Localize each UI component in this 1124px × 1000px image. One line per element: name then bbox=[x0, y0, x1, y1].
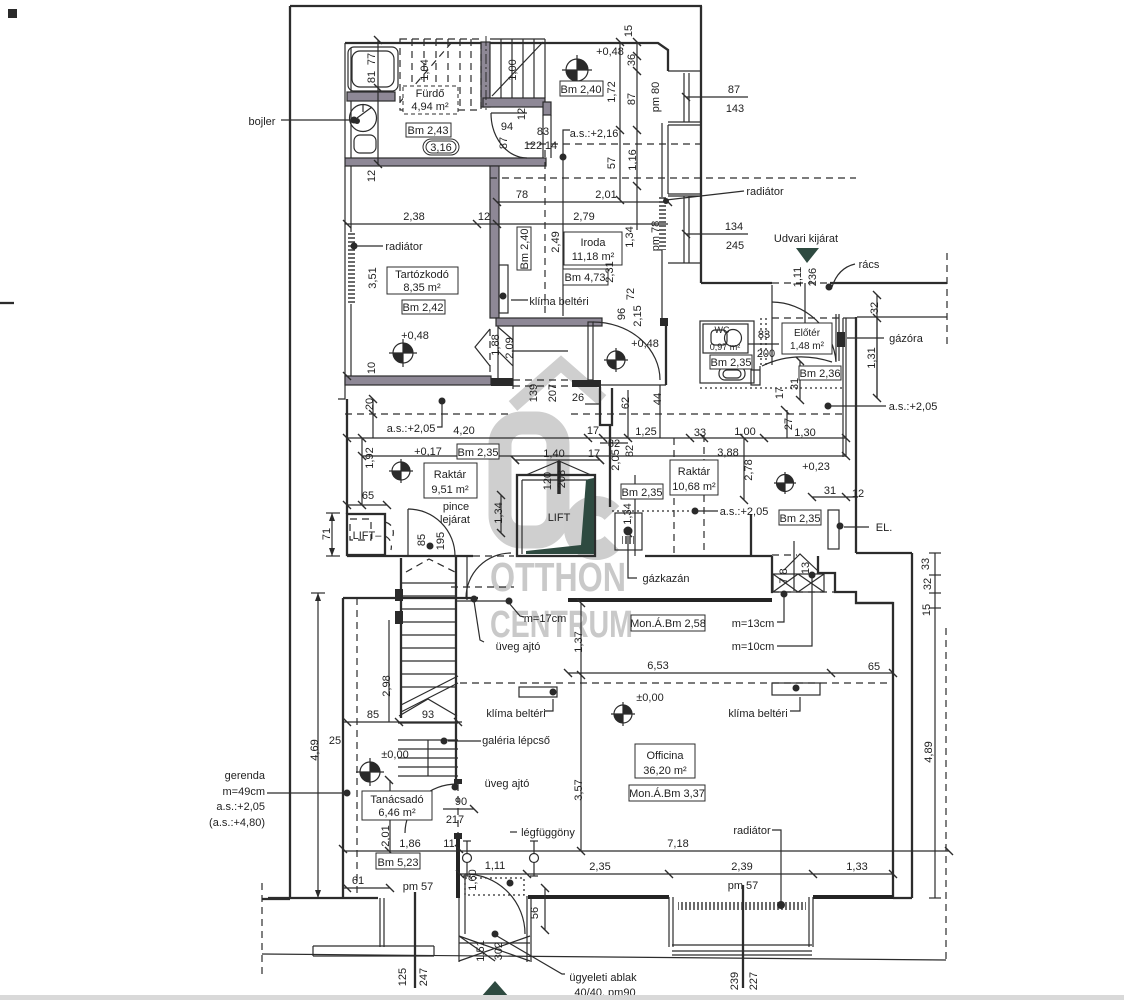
leader radiator officina bbox=[772, 830, 781, 903]
udvari kijarat arrow bbox=[796, 248, 819, 263]
svg-text:143: 143 bbox=[726, 103, 744, 115]
svg-text:1,51: 1,51 bbox=[475, 940, 487, 961]
Iroda south wall bbox=[496, 318, 602, 326]
svg-text:+0,17: +0,17 bbox=[414, 446, 442, 458]
tanacsado west wall bbox=[342, 598, 344, 898]
svg-text:Bm 2,35: Bm 2,35 bbox=[458, 447, 499, 459]
dim vline x637 bbox=[636, 42, 638, 230]
leader gerenda bbox=[267, 792, 344, 794]
leader pm57 right bbox=[742, 885, 744, 988]
svg-text:4,20: 4,20 bbox=[453, 425, 474, 437]
dashed vline x704 bbox=[703, 435, 705, 551]
ticks bbox=[339, 36, 953, 934]
label Bm 2,43 bbox=[406, 123, 451, 137]
pier cap 2 bbox=[454, 833, 462, 839]
svg-text:195: 195 bbox=[435, 532, 447, 550]
svg-text:10: 10 bbox=[366, 362, 378, 374]
corridor line y556 bbox=[347, 555, 473, 557]
site boundary east bbox=[700, 6, 702, 283]
corridor wall x610 lower bbox=[609, 425, 611, 507]
leader ugyeleti bbox=[497, 936, 565, 974]
svg-text:1,30: 1,30 bbox=[794, 427, 815, 439]
raktar1068 south wall bbox=[645, 555, 772, 557]
svg-text:83: 83 bbox=[758, 329, 770, 341]
officina shopwindow right pier bbox=[809, 897, 813, 947]
bojler dot bbox=[351, 117, 358, 124]
svg-text:94: 94 bbox=[501, 121, 513, 133]
svg-text:Bm 2,40: Bm 2,40 bbox=[519, 229, 531, 270]
svg-text:7 8: 7 8 bbox=[778, 568, 790, 583]
leader line down bbox=[562, 160, 564, 316]
svg-text:bojler: bojler bbox=[249, 116, 276, 128]
svg-text:200: 200 bbox=[757, 348, 775, 360]
dim vline x501 134 bbox=[500, 495, 502, 533]
svg-text:2,09: 2,09 bbox=[504, 337, 516, 358]
svg-text:2,15: 2,15 bbox=[632, 305, 644, 326]
svg-text:6,53: 6,53 bbox=[647, 660, 668, 672]
svg-text:1,00: 1,00 bbox=[507, 59, 519, 80]
entrance door arc bbox=[465, 874, 525, 934]
steps upper wall right bbox=[818, 556, 893, 603]
legfuggony device left bbox=[463, 841, 472, 876]
east wall outer x856 bbox=[855, 317, 857, 553]
STAIRS bbox=[395, 36, 824, 779]
svg-text:20: 20 bbox=[364, 398, 376, 410]
Tartozkodo west radiator hatch bbox=[348, 232, 355, 304]
radiator top dot bbox=[663, 198, 669, 204]
svg-text:15: 15 bbox=[921, 604, 933, 616]
leader as205 left bbox=[437, 404, 442, 427]
dim vline x378 bath bbox=[377, 40, 379, 165]
EL panel bbox=[828, 510, 839, 549]
DIMS bbox=[267, 36, 953, 988]
dim 71 arrows bbox=[326, 513, 340, 556]
pier cap 1 bbox=[454, 779, 462, 784]
gazkazan hatch bbox=[622, 536, 634, 544]
leader m10 bbox=[777, 578, 812, 646]
east window 2 glazing bbox=[668, 196, 701, 263]
sw window band bbox=[313, 946, 434, 956]
logo roof chevron bbox=[513, 364, 602, 406]
tanacsado south wall bbox=[268, 897, 378, 899]
main stair top chevron dashed bbox=[406, 559, 455, 572]
svg-text:2,78: 2,78 bbox=[743, 459, 755, 480]
wc bowl bbox=[725, 330, 742, 347]
svg-text:134: 134 bbox=[725, 221, 743, 233]
svg-text:9,51 m²: 9,51 m² bbox=[431, 484, 469, 496]
svg-text:üveg ajtó: üveg ajtó bbox=[496, 641, 541, 653]
label Előtér bbox=[782, 323, 832, 354]
svg-text:+0,48: +0,48 bbox=[596, 46, 624, 58]
svg-text:±0,00: ±0,00 bbox=[636, 692, 663, 704]
svg-text:klíma beltéri: klíma beltéri bbox=[529, 296, 588, 308]
svg-text:33: 33 bbox=[694, 427, 706, 439]
svg-text:Bm 4,73: Bm 4,73 bbox=[565, 272, 606, 284]
svg-text:11: 11 bbox=[443, 838, 454, 850]
label Mon.Á.Bm 2,58 bbox=[630, 615, 706, 631]
svg-text:12: 12 bbox=[516, 108, 528, 120]
uveg ajto tanacsado arc bbox=[405, 784, 457, 833]
raktar door dashes bbox=[772, 554, 797, 556]
svg-text:Bm 2,36: Bm 2,36 bbox=[800, 368, 841, 380]
WATERMARK bbox=[490, 364, 633, 646]
corridor line y385 bbox=[572, 384, 666, 386]
svg-text:Bm 2,35: Bm 2,35 bbox=[780, 513, 821, 525]
channel ticks bbox=[498, 327, 513, 366]
dim vline x787 27 bbox=[786, 410, 788, 438]
svg-text:1,88: 1,88 bbox=[490, 334, 502, 355]
svg-text:17: 17 bbox=[587, 425, 599, 437]
officina north wall bbox=[568, 598, 772, 602]
svg-text:üveg ajtó: üveg ajtó bbox=[485, 778, 530, 790]
svg-text:120: 120 bbox=[542, 472, 554, 490]
svg-text:Tanácsadó: Tanácsadó bbox=[370, 794, 423, 806]
svg-text:12: 12 bbox=[478, 211, 490, 223]
entrance door dot bbox=[492, 931, 499, 938]
label Bm 2,36 bbox=[799, 366, 841, 380]
svg-text:rács: rács bbox=[859, 259, 880, 271]
Eloter top dashed bbox=[772, 317, 843, 319]
bath south wall gray bbox=[345, 158, 546, 166]
dim 17-31 vline x800 bbox=[799, 361, 801, 400]
svg-text:galéria lépcső: galéria lépcső bbox=[482, 735, 550, 747]
corridor sill y601 bbox=[455, 600, 508, 602]
dashed vline x761 wc bbox=[761, 318, 766, 365]
east window 1 glazing bbox=[668, 73, 701, 125]
klima beltéri iroda rect bbox=[499, 265, 508, 313]
FIXTURES bbox=[348, 47, 820, 997]
svg-text:217: 217 bbox=[446, 814, 464, 826]
corridor top wall y598 bbox=[343, 597, 478, 599]
svg-text:1,33: 1,33 bbox=[846, 861, 867, 873]
as205 left dot bbox=[439, 398, 446, 405]
survey mark tartozkodo bbox=[389, 339, 417, 367]
svg-text:EL.: EL. bbox=[876, 522, 893, 534]
leader pm57 left bbox=[414, 892, 416, 988]
svg-text:3,57: 3,57 bbox=[573, 779, 585, 800]
svg-text:lejárat: lejárat bbox=[440, 514, 470, 526]
survey mark raktar1068 bbox=[774, 472, 796, 494]
leader m17 bbox=[509, 603, 524, 617]
svg-text:17: 17 bbox=[774, 387, 786, 399]
svg-text:ügyeleti ablak: ügyeleti ablak bbox=[569, 972, 637, 984]
svg-text:62: 62 bbox=[620, 397, 632, 409]
bidet bbox=[354, 135, 376, 153]
svg-text:82: 82 bbox=[624, 445, 636, 457]
svg-text:25: 25 bbox=[329, 735, 341, 747]
svg-text:2,01: 2,01 bbox=[380, 825, 392, 846]
officina south wall east part bbox=[813, 895, 893, 899]
edge mark left bbox=[0, 302, 14, 304]
officina shopwindow left pier bbox=[669, 897, 673, 947]
eloter entry door arc bbox=[772, 302, 836, 362]
svg-text:90: 90 bbox=[455, 796, 467, 808]
svg-text:72: 72 bbox=[625, 288, 637, 300]
svg-text:32: 32 bbox=[922, 578, 934, 590]
survey mark iroda door bbox=[604, 348, 628, 372]
svg-text:gázkazán: gázkazán bbox=[642, 573, 689, 585]
svg-text:gázóra: gázóra bbox=[889, 333, 924, 345]
dim hline y505 65 bbox=[347, 504, 387, 506]
svg-text:245: 245 bbox=[726, 240, 744, 252]
dim vline x877b 131 bbox=[876, 318, 878, 398]
DOORS bbox=[347, 113, 836, 938]
svg-text:Bm 2,35: Bm 2,35 bbox=[622, 487, 663, 499]
Tartozkodo south wall bbox=[345, 376, 491, 385]
dim vline x390 tanacsado bbox=[389, 780, 391, 851]
small lift door dashes bbox=[385, 522, 393, 550]
svg-text:1,00: 1,00 bbox=[734, 426, 755, 438]
galeria dot bbox=[441, 738, 448, 745]
scan edge band bbox=[0, 995, 1124, 1000]
svg-text:1,11: 1,11 bbox=[485, 860, 506, 872]
east wall inner face bbox=[661, 123, 663, 318]
dim hline y851 718 bbox=[343, 850, 949, 852]
pince door dot bbox=[427, 543, 434, 550]
leader as216 bbox=[563, 130, 570, 156]
svg-text:1,11: 1,11 bbox=[792, 267, 804, 288]
svg-text:Tartózkodó: Tartózkodó bbox=[395, 269, 449, 281]
leader uveg mid bbox=[474, 601, 484, 642]
svg-text:77: 77 bbox=[366, 53, 378, 65]
svg-text:Bm 2,43: Bm 2,43 bbox=[408, 125, 449, 137]
mini dim 1,40 line bbox=[515, 459, 600, 461]
svg-text:36,20 m²: 36,20 m² bbox=[643, 765, 687, 777]
stair cut dashdot bbox=[485, 36, 487, 110]
Eloter east wall bbox=[836, 314, 839, 361]
wall under right stair flight bbox=[483, 98, 545, 107]
dashed vline x545 iroda bbox=[544, 150, 546, 318]
svg-text:6,46 m²: 6,46 m² bbox=[378, 807, 416, 819]
svg-text:96: 96 bbox=[616, 308, 628, 320]
svg-text:4,69: 4,69 bbox=[309, 739, 321, 760]
wc toilet inner bbox=[723, 370, 741, 378]
svg-text:227: 227 bbox=[748, 972, 760, 990]
svg-text:93: 93 bbox=[422, 709, 434, 721]
main stair lower chevron bbox=[399, 699, 457, 716]
WALLS bbox=[268, 42, 912, 962]
svg-text:Raktár: Raktár bbox=[434, 469, 467, 481]
dim vline x362 bbox=[361, 438, 363, 505]
wc toilet below bbox=[719, 367, 745, 380]
svg-text:+0,48: +0,48 bbox=[401, 330, 429, 342]
svg-text:56: 56 bbox=[529, 907, 541, 919]
radiator officina dot bbox=[777, 901, 785, 909]
door dashed x458 bbox=[457, 784, 459, 833]
svg-text:a.s.:+2,05: a.s.:+2,05 bbox=[216, 801, 265, 813]
stair sw wall piece bbox=[395, 589, 403, 601]
svg-text:7,18: 7,18 bbox=[667, 838, 688, 850]
Eloter west wall bbox=[771, 285, 773, 365]
dim hline y202 bbox=[497, 201, 668, 203]
bathtub bbox=[348, 47, 398, 91]
tartozkodo door dashed leaf bbox=[489, 329, 491, 374]
courtyard steps X bbox=[773, 574, 824, 592]
svg-text:122: 122 bbox=[524, 140, 542, 152]
svg-text:1,40: 1,40 bbox=[543, 448, 564, 460]
site boundary west jog bottom bbox=[262, 898, 290, 900]
pince door leaf bbox=[407, 509, 409, 556]
north-east sill bbox=[668, 70, 701, 72]
officina shopwindow band bbox=[672, 945, 812, 955]
east wall pier bbox=[668, 125, 701, 196]
entrance west wall bbox=[456, 839, 460, 898]
steps dot m13 bbox=[781, 591, 788, 598]
dim hline y456 bbox=[362, 455, 846, 457]
wall between Tartozkodo and Iroda bbox=[490, 166, 499, 318]
dim vline x318 469 bbox=[311, 593, 325, 898]
klima officina left rect bbox=[519, 687, 557, 697]
small lift box bbox=[347, 514, 385, 555]
klima iroda dot bbox=[500, 293, 507, 300]
racs dot bbox=[826, 284, 833, 291]
courtyard edge y283 east part bbox=[830, 282, 947, 284]
legfuggony zone dot bbox=[507, 880, 514, 887]
svg-text:83: 83 bbox=[537, 126, 549, 138]
svg-text:1,48 m²: 1,48 m² bbox=[790, 341, 825, 352]
label Raktár 951 bbox=[424, 463, 477, 498]
gazora box on wall bbox=[837, 332, 845, 347]
EL dot bbox=[837, 523, 844, 530]
wall corner to officina bbox=[856, 552, 912, 554]
logo letter C bbox=[574, 506, 612, 550]
dim hline y343 83-200 bbox=[748, 343, 779, 345]
svg-text:pm 80: pm 80 bbox=[650, 82, 662, 113]
svg-text:1,86: 1,86 bbox=[399, 838, 420, 850]
steps block walls bbox=[772, 556, 773, 592]
label Tanácsadó bbox=[362, 791, 432, 820]
corner registration mark bbox=[8, 9, 17, 18]
svg-text:65: 65 bbox=[362, 490, 374, 502]
svg-text:85: 85 bbox=[367, 709, 379, 721]
entrance door leaf bbox=[464, 874, 466, 934]
svg-text:0,97 m²: 0,97 m² bbox=[710, 342, 741, 352]
svg-text:1,37: 1,37 bbox=[573, 631, 585, 652]
svg-text:1,16: 1,16 bbox=[627, 149, 639, 170]
svg-text:302: 302 bbox=[493, 942, 505, 960]
svg-text:klíma beltéri: klíma beltéri bbox=[486, 708, 545, 720]
svg-text:10,68 m²: 10,68 m² bbox=[672, 481, 716, 493]
svg-text:LIFT: LIFT bbox=[548, 512, 571, 524]
site boundary top bbox=[290, 5, 702, 7]
svg-text:1,60: 1,60 bbox=[467, 869, 479, 890]
boiler dot bbox=[624, 527, 633, 536]
label Bm 2,35 raktar951 bbox=[457, 444, 499, 459]
dim hline y234 window bbox=[686, 233, 748, 235]
svg-text:247: 247 bbox=[418, 968, 430, 986]
svg-text:Bm 2,35: Bm 2,35 bbox=[711, 357, 752, 369]
wc tank bbox=[711, 330, 727, 345]
svg-text:31: 31 bbox=[824, 485, 836, 497]
dashed level line y178 bbox=[490, 177, 856, 179]
main stair treads bbox=[401, 583, 456, 687]
leader gazora bbox=[847, 337, 884, 339]
svg-text:1,34: 1,34 bbox=[622, 503, 634, 524]
lift roof drop bbox=[557, 461, 561, 494]
as205 mid dot bbox=[692, 508, 699, 515]
site boundary west dashed bottom bbox=[261, 883, 263, 975]
svg-text:Udvari kijárat: Udvari kijárat bbox=[774, 233, 838, 245]
svg-text:radiátor: radiátor bbox=[385, 241, 423, 253]
entrance bay sill bbox=[459, 942, 530, 944]
svg-text:radiátor: radiátor bbox=[746, 186, 784, 198]
label Bm 5,23 bbox=[376, 853, 420, 869]
upper stair left flight dashed bbox=[400, 39, 481, 110]
svg-text:Bm 2,42: Bm 2,42 bbox=[403, 302, 444, 314]
corridor niche walls bbox=[600, 387, 612, 425]
Eloter door centre line bbox=[804, 283, 806, 323]
svg-text:±0,00: ±0,00 bbox=[381, 749, 408, 761]
svg-text:Előtér: Előtér bbox=[794, 328, 821, 339]
main stair outline bbox=[401, 556, 456, 779]
wc door arc bbox=[762, 357, 832, 366]
courtyard door opening dashed bbox=[772, 282, 830, 284]
lift shaft inner lines bbox=[522, 480, 590, 554]
courtyard boundary dashed vertical x947 bbox=[946, 253, 948, 345]
svg-text:36: 36 bbox=[626, 54, 638, 66]
svg-text:239: 239 bbox=[729, 972, 741, 990]
corridor door arc bbox=[466, 553, 511, 598]
svg-text:légfüggöny: légfüggöny bbox=[521, 827, 575, 839]
svg-text:m=17cm: m=17cm bbox=[524, 613, 567, 625]
galeria stair treads bbox=[398, 723, 458, 776]
dim vline x620 bbox=[619, 42, 621, 200]
leader gazkazan bbox=[628, 536, 637, 578]
label Bm 2,40b hall bbox=[560, 81, 603, 96]
svg-text:32: 32 bbox=[869, 302, 881, 314]
dim vline x660 44 bbox=[659, 385, 661, 438]
west wall Raktar951 bbox=[346, 399, 348, 514]
svg-text:207: 207 bbox=[547, 384, 559, 402]
small lift dashed inner bbox=[350, 519, 371, 540]
EL leader bbox=[844, 526, 869, 528]
logo letter O bbox=[500, 423, 558, 537]
svg-text:Officina: Officina bbox=[646, 750, 684, 762]
iroda door leaf bbox=[588, 322, 593, 380]
svg-text:2,49: 2,49 bbox=[550, 231, 562, 252]
label Tartózkodó bbox=[387, 267, 458, 294]
stair mid wall bbox=[481, 42, 490, 107]
wall piece x572-601 bbox=[572, 380, 601, 387]
svg-text:12: 12 bbox=[852, 488, 864, 500]
washbasin dot bbox=[354, 118, 360, 124]
svg-text:57: 57 bbox=[606, 157, 618, 169]
svg-text:LIFT–: LIFT– bbox=[353, 530, 383, 542]
tartozkodo door chevron bbox=[475, 329, 490, 366]
svg-text:Bm 2,40: Bm 2,40 bbox=[561, 84, 602, 96]
Tartozkodo south wall black part bbox=[491, 378, 513, 386]
svg-text:+0,48: +0,48 bbox=[631, 338, 659, 350]
dim hline y673 653-65 bbox=[568, 672, 893, 674]
label gerenda block bbox=[209, 770, 266, 829]
leader racs bbox=[832, 264, 855, 287]
svg-text:2,38: 2,38 bbox=[403, 211, 424, 223]
officina east wall outer bbox=[911, 553, 913, 898]
dashed as205 level mid bbox=[571, 413, 843, 415]
svg-text:OTTHON: OTTHON bbox=[490, 554, 626, 600]
svg-text:2,98: 2,98 bbox=[381, 675, 393, 696]
label Mon.Á.Bm 3,37 bbox=[629, 785, 705, 801]
svg-text:87: 87 bbox=[626, 93, 638, 105]
main dim hline y438 bbox=[347, 437, 846, 439]
leader radiator top bbox=[666, 191, 744, 200]
door head dashed 139-207 bbox=[513, 380, 571, 386]
south wall jog left bbox=[338, 385, 345, 399]
svg-text:+0,23: +0,23 bbox=[802, 461, 830, 473]
label Iroda bbox=[564, 232, 622, 265]
svg-text:13: 13 bbox=[800, 562, 812, 574]
svg-text:2,39: 2,39 bbox=[731, 861, 752, 873]
